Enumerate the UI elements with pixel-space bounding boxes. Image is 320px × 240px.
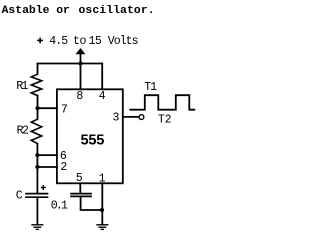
node: rail junction (78, 61, 82, 65)
resistor R1 (31, 74, 41, 95)
svg-text:T1: T1 (144, 81, 157, 94)
svg-text:0.1: 0.1 (51, 200, 68, 213)
ground below C (32, 224, 43, 226)
wire to capacitor C (36, 155, 38, 193)
svg-text:C: C (16, 189, 23, 202)
svg-text:Volts: Volts (108, 35, 138, 48)
wire pin 3 output (123, 116, 138, 118)
node: pin6 junction (35, 153, 39, 157)
svg-text:oscillator.: oscillator. (79, 5, 155, 17)
wire pin 1 to ground (101, 183, 103, 223)
node: ground rail junction (100, 208, 104, 212)
svg-text:or: or (56, 5, 70, 17)
label + 4.5 to 15 Volts (37, 38, 43, 44)
svg-text:555: 555 (80, 133, 104, 149)
svg-text:1: 1 (99, 172, 106, 185)
wire pin 7 (38, 107, 58, 109)
output terminal circle (139, 115, 144, 120)
ground below pin 1 (97, 224, 108, 226)
wire R1 top lead (37, 64, 39, 75)
wire R1 bottom lead (37, 96, 39, 109)
wire 0.1 to ground rail (81, 196, 103, 210)
svg-text:2: 2 (60, 161, 67, 174)
svg-text:4: 4 (99, 90, 106, 103)
power arrow head (76, 48, 86, 54)
wire pin 2 (37, 166, 57, 168)
op-amp U1: 555 IC body (57, 89, 123, 183)
wire R2 bottom lead (36, 144, 38, 156)
svg-text:7: 7 (61, 104, 68, 117)
svg-text:to: to (73, 35, 87, 48)
svg-text:Astable: Astable (2, 5, 50, 17)
wire C to ground (36, 197, 38, 224)
capacitor C plus sign (41, 185, 46, 190)
svg-text:15: 15 (89, 35, 102, 48)
wire pin 6 (37, 154, 57, 156)
svg-text:T2: T2 (158, 114, 172, 127)
svg-text:3: 3 (113, 111, 120, 124)
resistor R2 (31, 119, 41, 143)
svg-text:8: 8 (76, 90, 83, 103)
svg-text:4.5: 4.5 (49, 35, 68, 48)
node: pin2 junction (35, 165, 39, 169)
wire R2 top lead (37, 108, 39, 119)
capacitor 0.1 plates (71, 193, 91, 195)
svg-text:R2: R2 (17, 125, 29, 138)
node: R1/R2/pin7 junction (35, 106, 39, 110)
wire pin 8 drop (80, 64, 82, 90)
wire pin 5 (79, 183, 81, 193)
svg-text:5: 5 (76, 172, 83, 185)
wire pin 4 drop (101, 64, 103, 90)
capacitor C plates (26, 193, 48, 195)
waveform trace (130, 95, 194, 110)
wire arrow stem (80, 53, 82, 64)
wire V+ rail (38, 63, 103, 65)
